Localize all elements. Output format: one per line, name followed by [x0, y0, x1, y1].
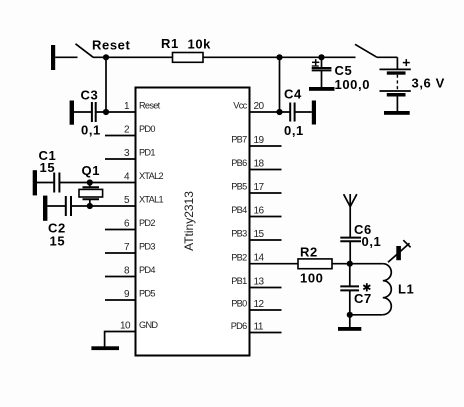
node junction (C5 tap) — [318, 54, 324, 60]
ground (battery bar) — [384, 111, 410, 115]
node junction (tank bottom) — [347, 312, 353, 318]
svg-text:C7: C7 — [354, 291, 372, 306]
resistor R2 — [298, 259, 332, 269]
node junction (reset net / rail) — [103, 54, 109, 60]
capacitor C2 — [65, 196, 67, 216]
svg-text:Reset: Reset — [92, 38, 130, 53]
svg-text:19: 19 — [254, 135, 265, 146]
wire — [349, 290, 351, 327]
svg-text:18: 18 — [254, 159, 265, 170]
ground (pin 10 bar) — [91, 346, 119, 350]
svg-text:PB5: PB5 — [231, 182, 247, 192]
svg-text:PD4: PD4 — [139, 265, 155, 275]
battery GB1 cell 1 — [380, 68, 411, 70]
svg-text:Q1: Q1 — [82, 163, 101, 178]
wire pin 19 stub — [250, 145, 282, 147]
svg-text:C4: C4 — [284, 87, 302, 102]
wire — [96, 111, 136, 113]
svg-text:17: 17 — [254, 182, 265, 193]
svg-text:XTAL2: XTAL2 — [139, 171, 163, 181]
op-amp U1 ATtiny2313 body — [136, 88, 250, 356]
svg-text:10: 10 — [120, 321, 131, 332]
ground (C2, rotated bar) — [43, 196, 47, 221]
svg-text:0,1: 0,1 — [284, 123, 304, 138]
wire — [396, 97, 398, 112]
wire — [295, 111, 312, 113]
wire — [349, 241, 351, 264]
svg-text:R1: R1 — [161, 36, 179, 51]
svg-text:PB1: PB1 — [231, 276, 247, 286]
capacitor C1 — [53, 173, 55, 193]
wire pin 8 stub — [105, 276, 136, 278]
svg-text:XTAL1: XTAL1 — [139, 195, 163, 205]
wire pin 2 stub — [105, 135, 136, 137]
node junction (pin 1) — [103, 109, 109, 115]
svg-text:PB6: PB6 — [231, 158, 247, 168]
svg-text:C5: C5 — [335, 63, 353, 78]
svg-text:C3: C3 — [81, 88, 99, 103]
node junction (crystal top) — [87, 179, 93, 185]
ground (C3, rotated bar) — [70, 101, 74, 125]
svg-text:ATtiny2313: ATtiny2313 — [182, 191, 196, 251]
wire — [279, 57, 281, 112]
wire pin 16 stub — [250, 216, 282, 218]
crystal Q1 — [89, 183, 91, 187]
wire pin 9 stub — [105, 299, 136, 301]
wire — [55, 56, 77, 58]
wire pin 17 stub — [250, 192, 282, 194]
svg-text:11: 11 — [254, 322, 264, 333]
node junction (pin 20) — [276, 109, 282, 115]
svg-text:14: 14 — [254, 253, 265, 264]
resistor R1 — [173, 53, 204, 63]
svg-text:PD0: PD0 — [139, 124, 155, 134]
switch SA2 blade — [355, 44, 377, 57]
svg-text:15: 15 — [254, 229, 265, 240]
wire pin 13 stub — [250, 287, 282, 289]
wire (pin 14 PB2) — [250, 263, 299, 265]
svg-text:15: 15 — [40, 160, 56, 175]
capacitor C6 — [340, 237, 361, 239]
wire — [332, 263, 350, 265]
antenna W1 — [349, 194, 351, 237]
svg-text:100: 100 — [300, 271, 324, 286]
node junction — [276, 54, 282, 60]
ground (C1, rotated bar) — [33, 170, 37, 195]
capacitor C5 — [312, 67, 332, 69]
wire — [37, 182, 54, 184]
battery GB1 cell 2 — [380, 90, 411, 92]
svg-text:15: 15 — [50, 234, 66, 249]
node junction (tank top) — [347, 261, 353, 267]
capacitor C5 plus-minus mark — [312, 61, 319, 63]
wire pin 11 stub — [250, 332, 282, 334]
ground (C5 bar) — [309, 87, 335, 91]
label C7 star mark — [363, 283, 370, 291]
wire — [74, 111, 92, 113]
svg-text:10k: 10k — [188, 37, 212, 52]
wire (pin 20 Vcc) — [250, 111, 291, 113]
capacitor C4 — [289, 103, 291, 122]
svg-text:20: 20 — [254, 101, 265, 112]
svg-text:PB2: PB2 — [231, 252, 247, 262]
svg-text:PD1: PD1 — [139, 148, 155, 158]
wire pin 18 stub — [250, 169, 282, 171]
antenna W2 (whip) — [388, 243, 410, 262]
wire pin 10 GND — [105, 332, 136, 347]
svg-text:16: 16 — [254, 206, 265, 217]
wire pin 15 stub — [250, 239, 282, 241]
svg-text:PD5: PD5 — [139, 289, 155, 299]
wire pin 7 stub — [105, 252, 136, 254]
wire pin 3 stub — [105, 158, 136, 160]
inductor L1 — [350, 263, 383, 265]
svg-text:L1: L1 — [398, 281, 414, 296]
wire (pin 5 XTAL1) — [71, 205, 136, 207]
wire pin 6 stub — [105, 229, 136, 231]
svg-text:100,0: 100,0 — [335, 77, 371, 92]
ground (C7 bar) — [338, 327, 361, 331]
wire — [321, 70, 323, 87]
ground (C4, rotated bar) — [312, 101, 316, 125]
wire — [321, 57, 323, 68]
switch SA1 blade — [76, 44, 94, 58]
svg-text:PD3: PD3 — [139, 242, 155, 252]
wire (pin 4 XTAL2) — [59, 182, 135, 184]
svg-text:PB4: PB4 — [231, 205, 247, 215]
wire — [93, 56, 173, 58]
svg-text:R2: R2 — [300, 245, 318, 260]
svg-text:PB3: PB3 — [231, 229, 247, 239]
svg-text:PD2: PD2 — [139, 218, 155, 228]
wire pin 12 stub — [250, 309, 282, 311]
svg-text:12: 12 — [254, 299, 265, 310]
battery GB1 dashed link — [396, 75, 398, 91]
svg-text:Reset: Reset — [139, 101, 161, 111]
svg-text:0,1: 0,1 — [362, 234, 382, 249]
wire — [203, 56, 356, 58]
svg-text:PB7: PB7 — [231, 135, 247, 145]
svg-text:Vcc: Vcc — [233, 101, 247, 111]
node junction (crystal bottom) — [87, 203, 93, 209]
svg-text:0,1: 0,1 — [81, 122, 101, 137]
svg-text:PB0: PB0 — [231, 299, 247, 309]
svg-text:3,6 V: 3,6 V — [412, 75, 445, 90]
wire — [105, 57, 107, 112]
wire — [349, 264, 351, 287]
svg-text:PD6: PD6 — [231, 321, 247, 331]
capacitor C7 — [340, 285, 359, 287]
capacitor C3 — [91, 102, 93, 122]
svg-text:13: 13 — [254, 277, 265, 288]
ground (top-left, rotated bar) — [51, 45, 55, 70]
wire — [377, 56, 397, 58]
wire — [47, 205, 65, 207]
svg-text:GND: GND — [139, 320, 158, 330]
battery GB1 plus mark — [403, 62, 410, 64]
